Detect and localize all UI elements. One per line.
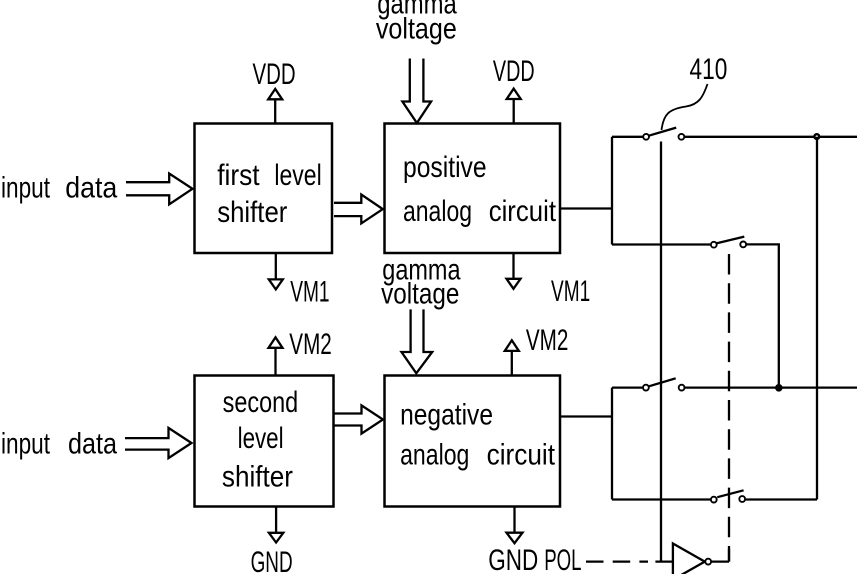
svg-text:circuit: circuit: [489, 195, 557, 228]
arrow VM2 up (over U4): wire: [511, 351, 513, 376]
label input data (bottom): [1, 428, 117, 461]
wire U4 output stub: [559, 415, 612, 417]
svg-text:second: second: [223, 386, 299, 419]
label VDD (over U1): [253, 58, 296, 91]
svg-text:shifter: shifter: [222, 461, 293, 494]
svg-text:voltage: voltage: [381, 277, 459, 310]
wire U2 output stub: [559, 207, 612, 209]
arrow GND down (under U3): wire: [275, 507, 277, 534]
switch S4 left contact: [711, 497, 717, 503]
wire row3 switch to right edge: [685, 386, 857, 388]
label U2 line1 "positive": [403, 151, 487, 184]
svg-text:shifter: shifter: [217, 196, 287, 229]
wire inverter output to POLB: [711, 560, 729, 562]
svg-text:input: input: [1, 428, 50, 461]
label U1 line1 "first level": [217, 159, 321, 192]
arrow VDD up (U1): wire: [274, 99, 276, 124]
junction node A (row1): [814, 134, 819, 139]
wire row1 switch to right edge: [684, 136, 857, 138]
block arrow G2 gamma voltage into U4: [402, 309, 433, 373]
svg-text:circuit: circuit: [487, 438, 556, 471]
arrow VDD up (U1): open head: [268, 89, 282, 99]
inverter U5 output bubble: [705, 559, 711, 565]
svg-text:data: data: [65, 171, 117, 204]
wire row4 right then up to node A: [745, 498, 817, 500]
switch S2 left contact: [711, 242, 717, 248]
svg-text:VDD: VDD: [493, 55, 535, 88]
svg-text:data: data: [68, 428, 117, 461]
switch S1 right contact: [679, 134, 685, 140]
label U3 "second level shifter": [222, 386, 298, 494]
switch S3 right contact: [679, 385, 685, 391]
label 410: [690, 53, 728, 86]
wire row1 to switch S1: [612, 136, 643, 138]
label VM1 (right of U2 arrow): [551, 275, 590, 308]
svg-text:VM1: VM1: [290, 276, 329, 309]
label U4 "negative analog circuit": [400, 398, 555, 471]
svg-text:GND: GND: [251, 546, 293, 574]
switch S4 right contact: [739, 496, 745, 502]
wire POLB control line (dashed vertical): [728, 249, 730, 562]
junction node B (row3): [776, 385, 783, 392]
svg-text:analog: analog: [403, 195, 472, 228]
svg-text:analog: analog: [400, 438, 469, 471]
box U4 negative analog circuit: [385, 376, 561, 507]
svg-text:VM2: VM2: [526, 324, 569, 357]
arrow GND down (under U4): open head: [507, 533, 523, 544]
block arrow A1 input data to U1: [126, 174, 193, 205]
svg-text:VDD: VDD: [253, 58, 296, 91]
switch S1 blade: [649, 128, 676, 136]
wire row3 to switch S3: [612, 386, 643, 388]
block arrow A3 U1 to U2: [334, 195, 383, 224]
svg-text:VM2: VM2: [289, 328, 332, 361]
svg-text:410: 410: [690, 53, 728, 86]
label U1 line2 "shifter": [217, 196, 287, 229]
block arrow A2 input data to U3: [125, 428, 192, 458]
label VM2 (over U4): [526, 324, 569, 357]
arrow VM1 down (under U1): wire: [275, 253, 277, 280]
label GND (under U3): [251, 546, 293, 574]
arrow VM1 down (under U2): wire: [512, 253, 514, 279]
switch S1 left contact: [643, 134, 649, 140]
switch S4 blade: [717, 490, 743, 497]
svg-text:GND: GND: [488, 544, 538, 574]
label VDD (over U2): [493, 55, 535, 88]
label input data (top): [1, 171, 118, 204]
arrow VM2 up (over U4): open head: [505, 340, 519, 351]
label VM1 (under U1): [290, 276, 329, 309]
box U3 second level shifter: [195, 376, 334, 507]
switch S2 blade: [716, 237, 744, 244]
wire row2 right then down to row3: [746, 244, 779, 387]
svg-text:negative: negative: [400, 398, 493, 431]
wire left bracket top (node P): [611, 137, 613, 245]
switch S2 right contact: [740, 242, 746, 248]
block arrow G1 gamma voltage into U2: [402, 59, 431, 124]
svg-text:level: level: [274, 159, 321, 192]
label gamma voltage (top): [376, 0, 457, 46]
svg-text:POL: POL: [544, 544, 581, 574]
label GND POL: [488, 544, 581, 574]
label VM2 (over U3): [289, 328, 332, 361]
svg-text:positive: positive: [403, 151, 487, 184]
wire row2 to switch S2: [612, 243, 711, 245]
arrow VM2 up (over U3): open head: [269, 337, 283, 348]
arrow GND down (under U3): open head: [269, 533, 283, 543]
wire GND POL dashed: [586, 560, 648, 562]
svg-text:VM1: VM1: [551, 275, 590, 308]
wire POL control line (solid vertical): [660, 142, 662, 562]
wire left bracket bottom (node N): [611, 388, 613, 500]
inverter U5 (POL to POLB) triangle: [673, 544, 705, 574]
wire POLB corner solid piece: [728, 549, 730, 562]
box U2 positive analog circuit: [385, 124, 561, 254]
leader line from 410 to switch S1: [662, 84, 708, 130]
svg-text:first: first: [217, 159, 260, 192]
label U2 line2 "analog circuit": [403, 195, 557, 228]
svg-text:input: input: [1, 171, 50, 204]
wire vertical node A to row4: [816, 137, 818, 500]
block arrow A4 U3 to U4: [335, 405, 384, 433]
arrow VM1 down (under U2): open head: [507, 279, 521, 289]
arrow VM1 down (under U1): open head: [269, 279, 283, 289]
arrow VDD up (U2): wire: [513, 99, 515, 124]
label gamma voltage (middle): [381, 254, 461, 311]
arrow VDD up (U2): open head: [507, 89, 521, 99]
switch S3 left contact: [643, 385, 649, 391]
switch S3 blade: [649, 378, 676, 386]
box U1 first level shifter: [195, 124, 333, 254]
arrow VM2 up (over U3): wire: [274, 348, 276, 376]
wire inverter input: [655, 560, 673, 562]
svg-text:voltage: voltage: [376, 13, 457, 46]
svg-text:level: level: [238, 422, 284, 455]
arrow GND down (under U4): wire: [513, 507, 515, 533]
wire row4 to switch S4: [612, 498, 711, 500]
